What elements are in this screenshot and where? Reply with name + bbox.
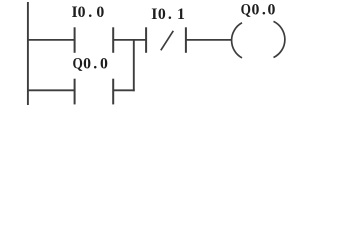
svg-text:0.0: 0.0 <box>251 2 275 19</box>
svg-text:I0.1: I0.1 <box>151 6 185 23</box>
svg-text:Q: Q <box>241 2 251 19</box>
svg-text:Q: Q <box>72 56 82 73</box>
svg-text:I0.0: I0.0 <box>72 4 105 21</box>
svg-text:0.0: 0.0 <box>83 56 108 73</box>
